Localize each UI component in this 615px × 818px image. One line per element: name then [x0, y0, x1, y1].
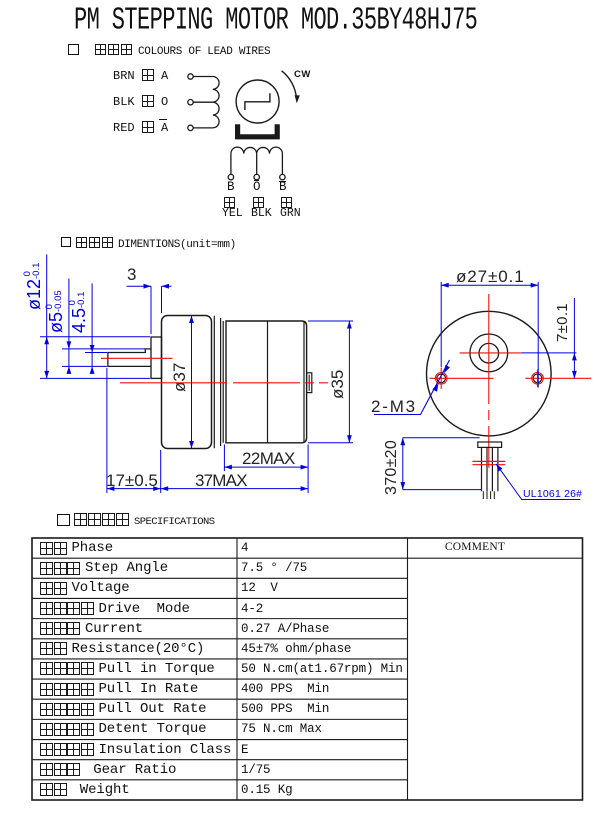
dim text dia27+-0.1: [456, 267, 525, 287]
table row 1: [40, 538, 113, 558]
table row line 6: [32, 658, 408, 660]
wire colour labels YEL BLK GRN: [222, 207, 243, 220]
dim line 22MAX: [224, 465, 308, 470]
table comment header: [407, 537, 543, 557]
mounting hole right: [532, 373, 544, 385]
motor can outline: [226, 321, 307, 443]
table row 10: [40, 719, 206, 739]
ext lines 37MAX: [107, 368, 161, 493]
terminal label Bbar: [279, 180, 287, 194]
front view body circle: [427, 311, 552, 436]
ext lines dia35: [308, 321, 353, 443]
terminal B: [228, 174, 233, 179]
wire grommet: [478, 442, 502, 447]
lead wire ends: [483, 491, 494, 499]
dim line 7: [572, 298, 577, 378]
CW rotation arrow: [282, 71, 300, 104]
front view boss circle: [470, 334, 508, 372]
dim line dia35: [347, 321, 352, 443]
section 3 checkbox: [57, 514, 70, 526]
label BRN A: [113, 69, 168, 83]
leader UL1061: [496, 464, 580, 500]
ext lines 370: [403, 438, 482, 490]
dim line dia5: [67, 279, 72, 374]
table row 9: [40, 699, 206, 719]
dim text dia12 rotated: [23, 263, 45, 310]
label BLK O: [113, 95, 168, 109]
ext line shaft top: [62, 348, 145, 350]
wire break marks red: [472, 461, 505, 464]
dim text 4.5 rotated: [68, 292, 90, 333]
rotor step symbol: [245, 93, 270, 110]
output shaft: [108, 349, 151, 367]
lead wires: [482, 447, 498, 491]
terminal tab: [307, 373, 312, 393]
table row 11: [40, 740, 231, 760]
table row line 3: [32, 597, 408, 599]
terminal O: [254, 174, 259, 179]
table row 12: [40, 760, 176, 780]
hole left vertical tick: [440, 368, 442, 390]
table row line 12: [32, 779, 408, 781]
wire RED to coil: [193, 127, 213, 129]
ext lines dia27: [441, 282, 538, 388]
table row 7: [40, 659, 215, 679]
table outer border: [32, 538, 583, 800]
gearbox rear plate line: [213, 316, 215, 449]
table row line 5: [32, 638, 408, 640]
ext line shaft bottom: [62, 365, 107, 367]
table row line 1 full: [32, 557, 583, 559]
table row line 4: [32, 618, 408, 620]
table row line 10: [32, 739, 408, 741]
hole right vertical tick: [537, 370, 539, 388]
table row 4: [40, 599, 190, 619]
motor can end line: [303, 322, 305, 443]
label RED Abar: [113, 121, 168, 135]
motor rotor circle M: [236, 80, 279, 123]
boss centerline red: [460, 352, 522, 354]
dim text 7+-0.1 rotated: [554, 303, 571, 342]
terminal BRN: [188, 74, 193, 79]
dim text 37MAX: [195, 471, 247, 491]
table row 6: [40, 639, 204, 659]
terminal label O with bar: [253, 180, 261, 194]
ext line boss bottom: [40, 377, 150, 379]
dim 3 lines: [127, 284, 172, 334]
table row line 9: [32, 718, 408, 720]
flange line 1: [220, 318, 222, 446]
section 3 header: [74, 511, 215, 529]
motor axis centerline: [120, 382, 328, 384]
dim line dia27: [441, 283, 538, 288]
ext lines 22MAX: [224, 445, 308, 494]
title: [74, 3, 477, 39]
dim text 370+-20 rotated: [383, 440, 401, 495]
section 2 checkbox: [61, 237, 71, 247]
wire BLK to coil: [193, 101, 213, 103]
table row line 2: [32, 577, 408, 579]
table column divider 2: [407, 538, 409, 800]
gearbox body outline: [162, 316, 212, 449]
table row line 8: [32, 698, 408, 700]
table row 3: [40, 578, 130, 598]
hole axis centerline: [430, 377, 592, 379]
coil L2 sense winding: [231, 147, 283, 153]
terminal label B: [227, 180, 235, 194]
front view shaft circle: [479, 343, 499, 363]
dim line 17 and 37MAX: [107, 486, 308, 491]
dim text 2-M3: [371, 397, 417, 417]
dim text 3: [127, 265, 136, 285]
flange line 2: [222, 321, 224, 443]
dim text 22MAX: [242, 449, 295, 469]
section 1 header: [95, 41, 270, 59]
coil L1 stator winding: [213, 77, 219, 128]
wire lead O: [256, 154, 258, 175]
dim text dia5 rotated: [45, 290, 67, 333]
table row 8: [40, 679, 198, 699]
terminal RED: [188, 125, 193, 130]
mounting hole left: [435, 373, 447, 385]
section 1 checkbox: [68, 44, 79, 55]
ext line boss level blue: [521, 352, 576, 354]
front vertical centerline: [488, 294, 490, 468]
dim line dia37: [189, 316, 194, 449]
leader 2-M3: [374, 360, 450, 415]
motor can seam: [267, 321, 269, 443]
stator bracket: [235, 124, 280, 139]
dim line 4.5: [90, 283, 95, 374]
dim text dia35 rotated: [328, 370, 348, 399]
wire BRN to coil: [193, 76, 213, 78]
terminal BLK: [188, 100, 193, 105]
ext line flat top: [85, 352, 107, 354]
table row 2: [40, 558, 168, 578]
table row 5: [40, 619, 143, 639]
table row line 7: [32, 678, 408, 680]
wire colour hanzi yellow black green: [224, 197, 235, 208]
mounting boss: [151, 337, 162, 378]
wire lead Bbar: [281, 154, 283, 175]
ext line boss top: [40, 336, 150, 338]
wire lead B: [230, 154, 232, 175]
label CW: [294, 69, 311, 80]
dim text UL1061 26#: [523, 488, 582, 500]
dim line 370: [400, 438, 405, 490]
table row line 11: [32, 759, 408, 761]
dim text dia37 rotated: [170, 363, 190, 392]
shaft centerline: [101, 357, 173, 359]
terminal Bbar2: [280, 174, 285, 179]
dim text 17+-0.5: [106, 471, 158, 491]
section 2 header: [76, 234, 236, 252]
table column divider 1: [236, 538, 238, 800]
overline of A: [159, 119, 167, 120]
table row 13: [40, 780, 130, 800]
dim line dia12: [44, 255, 49, 379]
